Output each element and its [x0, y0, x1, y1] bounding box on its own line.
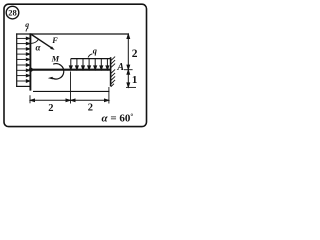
wall hatching	[111, 57, 115, 87]
svg-text:F: F	[51, 36, 58, 45]
bottom extension ticks	[30, 72, 109, 104]
angle alpha arc	[31, 39, 39, 44]
wall at A	[110, 57, 112, 86]
svg-text:M: M	[51, 53, 60, 63]
lower horizontal line	[33, 90, 109, 92]
label q (beam distributed load)	[88, 46, 97, 57]
svg-text:A: A	[116, 62, 124, 73]
svg-text:2: 2	[48, 103, 53, 114]
svg-text:28: 28	[8, 8, 17, 18]
beam	[30, 69, 111, 71]
svg-text:q: q	[93, 46, 97, 55]
problem number badge 28	[6, 6, 19, 19]
svg-text:2: 2	[88, 103, 93, 114]
svg-text:α = 60°: α = 60°	[102, 111, 134, 124]
top extension line	[16, 33, 129, 35]
svg-text:2: 2	[132, 48, 138, 60]
right dimension line	[124, 34, 136, 87]
moment arc with arrow	[48, 64, 64, 80]
beam load arrows	[69, 59, 108, 70]
left load arrows	[17, 37, 30, 82]
svg-text:1: 1	[132, 74, 138, 86]
left vertical member	[29, 33, 31, 90]
junction dot	[29, 68, 33, 72]
left load baseline	[16, 33, 18, 87]
border frame	[4, 4, 147, 126]
label q (left distributed load)	[25, 20, 29, 31]
beam load top line	[71, 58, 111, 60]
bottom dimension line	[30, 99, 108, 102]
left load bottom closure	[16, 85, 30, 87]
force F vector	[31, 34, 59, 50]
